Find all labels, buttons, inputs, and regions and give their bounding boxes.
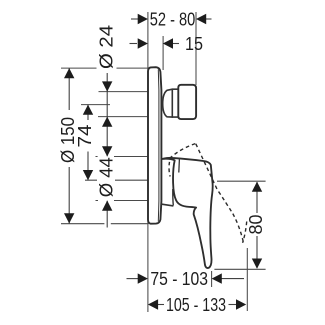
dimension 105-133 row (y=304.5) xyxy=(157,304,238,306)
wire: extension L1 plate top (y=67.6) xyxy=(61,67,148,69)
arrows 15 (at x=147.9 and x=162.8) xyxy=(138,38,173,48)
wire: extension D 75-103 right tick (x=211.6) xyxy=(211,271,213,287)
dimension 15 row xyxy=(130,43,180,45)
wire: extension R1 handle axis right (y=180.2) xyxy=(217,180,266,182)
arrow Ø44 top (points down at y=156.5) xyxy=(102,146,112,156)
arrow 74 top (points up at y=104.6) xyxy=(83,105,93,115)
dimension line 74 vertical (x=89) xyxy=(87,105,89,181)
svg-text:80: 80 xyxy=(246,215,266,235)
wire: extension L8 plate bottom (y=226.7) xyxy=(61,223,149,225)
arrow Ø24 top (points down at y=91.6) xyxy=(102,81,112,91)
wire: extension L2 knob top (y=91.6) xyxy=(99,91,148,93)
handle hub bottom edge xyxy=(161,204,173,206)
wire: extension L3 knob axis (y=104.6) xyxy=(81,104,110,106)
arrow 74 bottom (points down at y=180.2) xyxy=(83,170,93,180)
arrows 52-80 (inward pair at x=147.9 and x=196) xyxy=(138,14,207,24)
dashed handle ghost: apex left branch + collar arc xyxy=(169,144,195,177)
svg-text:105 - 133: 105 - 133 xyxy=(166,295,226,315)
svg-text:75 - 103: 75 - 103 xyxy=(150,269,208,289)
lever collar inner line xyxy=(178,159,181,172)
wire: extension R2 handle tip (y=269.3) xyxy=(214,268,265,270)
wire: extension L7 hub bottom (y=200.5) xyxy=(96,200,161,202)
arrow 80 bottom (points down at y=268.7) xyxy=(252,259,262,269)
dashed handle ghost: back edge from apex to tip xyxy=(196,144,244,243)
arrow Ø150 top (points up at y=67.6) xyxy=(64,68,74,78)
wire: wall extension line A (x=147.9, full height) xyxy=(147,12,149,312)
svg-text:15: 15 xyxy=(185,34,203,54)
arrow 80 top (points up at y=180.2) xyxy=(252,182,262,192)
svg-text:74: 74 xyxy=(75,125,95,148)
arrow Ø150 bottom (points down at y=226.7) xyxy=(64,213,74,223)
svg-text:Ø 24: Ø 24 xyxy=(97,25,117,69)
wire: extension L5 hub top (y=156.5) xyxy=(96,156,161,158)
wire: extension E 105-133 right (x=247.3) xyxy=(246,248,248,311)
arrow Ø24 bottom (points up at y=116.6) xyxy=(102,117,112,127)
arrows 75-103 (at x=147.9 and x=211.6) xyxy=(138,273,222,283)
svg-text:Ø 44: Ø 44 xyxy=(96,157,116,197)
plate front rim inner line xyxy=(157,70,160,222)
knob grip cylinder xyxy=(178,85,196,119)
arrows 105-133 (at x=147.9 and x=246.2) xyxy=(148,299,246,309)
wire: knob-face extension line B (x=196) xyxy=(195,12,197,85)
wire: extension L6 handle axis left (y=180.2) xyxy=(85,179,161,181)
lever handle (solid) xyxy=(162,158,212,268)
escutcheon plate (side view) xyxy=(148,67,161,224)
handle hub front lower edge xyxy=(172,189,175,206)
dimension line Ø24 / Ø44 common vertical (x=107.2) xyxy=(106,73,108,228)
dimension line 80 vertical (x=255.6) xyxy=(256,182,258,268)
dashed handle ghost: front edge near tip xyxy=(243,222,247,243)
wire: plate-front extension line C (x=163.1) xyxy=(162,36,164,70)
dimension 75-103 row (y=278.6) xyxy=(127,278,245,280)
dimension 52-80 top row xyxy=(131,18,212,20)
knob cone/neck xyxy=(163,89,173,117)
knob mid ring xyxy=(172,89,178,117)
arrow Ø44 bottom (points up at y=200.5) xyxy=(102,201,112,211)
wire: extension L4 knob bottom (y=116.6) xyxy=(98,116,148,118)
svg-text:52 - 80: 52 - 80 xyxy=(150,10,196,30)
dimension line Ø150 vertical (x=69.3) xyxy=(68,68,70,223)
